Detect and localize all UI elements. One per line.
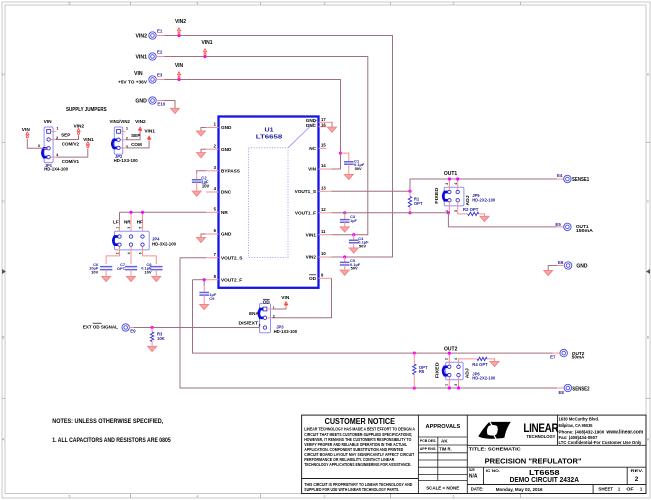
U1 pin 12 VOUT1_F — [319, 212, 332, 214]
svg-text:GND: GND — [576, 264, 588, 270]
JP4 pins — [118, 235, 121, 238]
node C9 junction — [203, 278, 206, 281]
ground at C1 — [344, 174, 353, 179]
terminal E6 GND — [564, 262, 571, 269]
U1 pin 4 DNC — [206, 191, 219, 193]
wire net VIN2 — [165, 36, 393, 258]
svg-text:www.linear.com: www.linear.com — [605, 429, 643, 435]
U1 pin 7 VOUT2_S — [206, 257, 219, 259]
resistor R1 — [409, 191, 411, 196]
terminal E4 SENSE1 — [557, 178, 564, 180]
ground at C2 — [192, 191, 201, 196]
ground at C3 — [340, 227, 349, 232]
svg-text:10V: 10V — [202, 183, 210, 188]
svg-text:E6: E6 — [558, 260, 564, 265]
wire JP3 pin1 to VIN flag — [267, 308, 273, 310]
node VOUT1_F R1 junction — [408, 211, 411, 214]
ground at R4 — [490, 361, 499, 366]
svg-text:11: 11 — [321, 229, 326, 234]
svg-text:4: 4 — [197, 494, 199, 498]
svg-text:4: 4 — [454, 358, 458, 360]
terminal E5 OUT1 150mA — [557, 226, 564, 228]
svg-text:BYPASS: BYPASS — [221, 169, 240, 174]
svg-text:E7: E7 — [550, 355, 556, 360]
wire E2 VIN1 stub — [156, 56, 164, 58]
ground at C7 — [127, 276, 136, 281]
svg-text:VIN1: VIN1 — [135, 55, 147, 61]
wire JP4 pin3 stub — [130, 213, 132, 235]
svg-text:N/A: N/A — [469, 473, 478, 479]
U1 pin 3 BYPASS — [206, 170, 219, 172]
resistor R5 OPT — [413, 352, 416, 355]
svg-text:10K: 10K — [157, 336, 165, 341]
JP2 pin 1 stub — [120, 130, 125, 132]
svg-text:E10: E10 — [157, 101, 165, 106]
wire E1 VIN2 stub — [156, 35, 164, 37]
capacitor C9 — [203, 280, 205, 286]
wire E6 to ground — [557, 265, 565, 267]
svg-text:E8: E8 — [559, 390, 565, 395]
svg-text:SHEET: SHEET — [598, 487, 613, 492]
svg-text:DNC: DNC — [221, 190, 232, 195]
ground at C6 — [102, 276, 111, 281]
JP3 pin 2 — [263, 316, 266, 319]
wire net VIN — [165, 80, 341, 170]
capacitor C1 — [339, 152, 342, 155]
jumper JP5 — [444, 187, 464, 206]
svg-text:NR: NR — [221, 210, 228, 215]
node NR jumper taps — [129, 211, 132, 214]
resistor R3 10K — [151, 326, 154, 329]
svg-text:GND: GND — [221, 232, 232, 237]
svg-text:VIN2: VIN2 — [135, 34, 147, 40]
svg-text:4: 4 — [454, 183, 458, 185]
svg-text:VIN: VIN — [308, 167, 316, 172]
svg-text:U1: U1 — [265, 127, 274, 133]
JP6 pin stubs — [448, 353, 450, 364]
JP1 pin 1 stub — [51, 130, 57, 132]
wire JP1 pin2 to VIN2 flag — [50, 139, 56, 141]
ground at U1 pin 1 — [201, 128, 206, 131]
capacitor C2 — [197, 171, 206, 174]
svg-text:15: 15 — [321, 143, 326, 148]
wire E3 VIN stub — [156, 79, 164, 81]
svg-text:R2 OPT: R2 OPT — [463, 207, 479, 212]
svg-text:1: 1 — [116, 227, 120, 229]
svg-text:3: 3 — [324, 2, 326, 6]
JP5 shunt FIXED position — [443, 192, 449, 200]
JP4 shunt LF position — [113, 237, 119, 245]
U1 pin 17 GND — [319, 121, 332, 123]
JP1 pin 2 — [47, 138, 50, 141]
svg-text:OPT: OPT — [117, 266, 126, 271]
svg-text:TITLE: SCHEMATIC: TITLE: SCHEMATIC — [469, 447, 522, 452]
svg-text:FIXED: FIXED — [434, 362, 439, 378]
svg-text:AK: AK — [441, 439, 448, 444]
power flag VIN1 — [203, 49, 206, 54]
svg-text:Milpitas, CA 95035: Milpitas, CA 95035 — [559, 423, 593, 428]
svg-text:3: 3 — [454, 384, 458, 386]
ground at C5 — [340, 270, 349, 275]
JP2 pin 2 — [117, 138, 120, 141]
svg-text:VIN2: VIN2 — [73, 123, 84, 129]
svg-text:VOUT2_S: VOUT2_S — [221, 256, 242, 261]
svg-text:SENSE1: SENSE1 — [572, 177, 589, 183]
svg-text:EXT OD SIGNAL: EXT OD SIGNAL — [83, 325, 118, 331]
svg-text:SUPPLIED FOR USE WITH LINEAR T: SUPPLIED FOR USE WITH LINEAR TECHNOLOGY … — [304, 487, 399, 492]
node JP6 junctions — [448, 352, 451, 355]
svg-text:VIN: VIN — [44, 119, 53, 125]
capacitor C5 — [343, 255, 346, 258]
svg-text:SIZE: SIZE — [469, 468, 475, 472]
svg-text:ADJ: ADJ — [465, 195, 470, 206]
svg-text:R4 OPT: R4 OPT — [472, 362, 488, 367]
svg-text:OPT: OPT — [414, 201, 423, 206]
wire JP1 pin4 to VIN1 flag — [51, 156, 57, 158]
svg-text:LF: LF — [113, 220, 119, 225]
wire VOUT1_F to E5 — [448, 213, 556, 227]
svg-text:5: 5 — [139, 227, 143, 229]
svg-text:NC: NC — [309, 146, 316, 151]
U1 pin 9 OD — [319, 277, 332, 279]
node VIN flag junction — [177, 78, 180, 81]
svg-text:C9: C9 — [209, 296, 215, 301]
svg-text:50V: 50V — [359, 243, 366, 248]
JP1 shunt on pins 3-4 — [42, 148, 48, 157]
title block outline — [302, 415, 646, 493]
svg-text:VIN2: VIN2 — [135, 119, 146, 125]
power flag VIN at JP3 — [284, 302, 287, 305]
svg-text:GND: GND — [221, 147, 232, 152]
svg-text:3: 3 — [127, 227, 131, 229]
resistor R2 to ground — [458, 202, 468, 214]
svg-text:COM: COM — [131, 142, 142, 147]
capacitor C3 — [343, 211, 346, 214]
svg-text:OD: OD — [263, 300, 271, 305]
ground at U1 pin 6 — [201, 234, 206, 237]
svg-text:VIN2: VIN2 — [175, 19, 186, 25]
JP3 pin 2 stub — [267, 317, 272, 319]
wire net VOUT2_F — [193, 279, 207, 281]
wire net VOUT1_F — [332, 212, 449, 214]
power flag VIN1 at JP1 — [86, 142, 89, 146]
svg-text:E2: E2 — [157, 49, 163, 54]
svg-text:HD-2X2-100: HD-2X2-100 — [472, 197, 496, 202]
zone ticks left/right — [2, 142, 650, 144]
ground at C4 — [349, 248, 358, 253]
terminal E7 OUT2 50mA — [553, 352, 561, 354]
svg-text:HF: HF — [137, 220, 143, 225]
svg-text:E4: E4 — [557, 173, 563, 178]
svg-text:VIN: VIN — [134, 71, 143, 77]
title block dividers — [418, 415, 467, 493]
power flag VIN2 at JP1 — [77, 128, 80, 132]
jumper JP2 — [114, 127, 122, 154]
svg-text:1µF: 1µF — [350, 218, 358, 223]
svg-text:IC NO.: IC NO. — [486, 469, 500, 473]
U1 pin 6 GND — [206, 233, 219, 235]
U1 pin 15 NC — [319, 147, 327, 149]
svg-text:NR: NR — [124, 220, 131, 225]
ground at C8 — [152, 276, 161, 281]
svg-text:4: 4 — [197, 2, 199, 6]
svg-text:OF: OF — [626, 487, 634, 492]
terminal E10 GND — [149, 97, 156, 104]
svg-text:1630 McCarthy Blvd.: 1630 McCarthy Blvd. — [559, 417, 600, 422]
svg-text:LTC Confidential-For Customer: LTC Confidential-For Customer Use Only — [559, 440, 642, 445]
power flag VIN2 — [177, 28, 180, 33]
capacitor C6 — [106, 247, 119, 265]
svg-text:HD-1X3-100: HD-1X3-100 — [274, 329, 298, 334]
svg-text:LINEAR: LINEAR — [523, 421, 558, 435]
U1 pin 8 VOUT2_F — [206, 279, 219, 281]
svg-text:2: 2 — [445, 358, 449, 360]
svg-text:2: 2 — [635, 476, 639, 483]
svg-text:HD-3X2-100: HD-3X2-100 — [152, 241, 177, 246]
svg-text:VOUT2_F: VOUT2_F — [221, 277, 242, 282]
svg-text:3: 3 — [259, 323, 261, 327]
JP5 pin1 stub to VOUT1_F — [448, 202, 450, 213]
svg-text:PCB DES.: PCB DES. — [420, 439, 437, 443]
svg-text:LT6658: LT6658 — [529, 468, 560, 477]
U1 pin 14 VIN — [319, 168, 332, 170]
svg-text:150mA: 150mA — [576, 228, 594, 233]
JP3 pin 1 — [263, 307, 267, 311]
jumper JP3 — [260, 304, 271, 333]
U1 pin 5 NR — [206, 211, 219, 213]
sheet centre arrows — [2, 269, 6, 274]
svg-text:PRECISION "REFULATOR": PRECISION "REFULATOR" — [485, 456, 582, 465]
power flag VIN2 at JP2 — [138, 127, 141, 130]
svg-text:VIN1/VIN2: VIN1/VIN2 — [110, 119, 131, 125]
svg-text:OUT1: OUT1 — [444, 171, 458, 177]
svg-text:13: 13 — [321, 186, 326, 191]
svg-text:1: 1 — [445, 384, 449, 386]
ground at C9 — [200, 305, 209, 310]
svg-text:2: 2 — [453, 494, 455, 498]
wire OUT1 riser — [410, 179, 557, 191]
svg-text:SEP: SEP — [61, 132, 70, 137]
svg-text:APPROVALS: APPROVALS — [426, 424, 461, 430]
svg-text:10V: 10V — [91, 270, 98, 275]
svg-text:Phone: (408)432-1900: Phone: (408)432-1900 — [559, 429, 605, 434]
node VIN1 flag junction — [203, 55, 206, 58]
wire JP2 pin2 to VIN2 flag — [121, 139, 127, 141]
svg-text:FIXED: FIXED — [434, 188, 439, 204]
svg-text:GND: GND — [221, 125, 232, 130]
svg-text:COM/V1: COM/V1 — [62, 159, 80, 164]
svg-text:HD-2X2-100: HD-2X2-100 — [472, 376, 496, 381]
svg-text:17: 17 — [321, 117, 326, 122]
svg-text:5: 5 — [69, 2, 71, 6]
terminal E9 EXT OD SIGNAL — [122, 324, 129, 331]
ground at U1 pin 2 — [201, 149, 206, 152]
svg-text:VIN1: VIN1 — [144, 128, 155, 134]
wire E10 to ground — [156, 100, 163, 102]
svg-text:VIN1: VIN1 — [83, 137, 94, 143]
svg-text:COM/V2: COM/V2 — [62, 141, 80, 146]
node JP5 pin1 junction — [447, 211, 450, 214]
resistor R4 to ground — [459, 359, 477, 365]
svg-text:DEMO CIRCUIT 2432A: DEMO CIRCUIT 2432A — [510, 477, 579, 484]
svg-text:14: 14 — [321, 163, 326, 168]
power flag VIN1 at JP2 — [147, 136, 150, 139]
svg-text:E5: E5 — [555, 222, 561, 227]
svg-text:10V: 10V — [144, 270, 151, 275]
wire JP4 pin5 stub — [142, 213, 144, 235]
jumper JP4 — [115, 231, 150, 250]
svg-text:VIN1: VIN1 — [306, 232, 317, 237]
wire EXT OD wire — [134, 327, 264, 329]
ground at R2 — [480, 216, 489, 221]
JP3 pin 3 — [263, 326, 266, 329]
wire net NR — [120, 211, 207, 213]
JP1 pin 4 — [47, 155, 50, 158]
svg-text:Monday, May 02, 2016: Monday, May 02, 2016 — [496, 487, 543, 493]
svg-text:5: 5 — [69, 494, 71, 498]
wire net VOUT1_S — [332, 190, 411, 192]
svg-text:TECHNOLOGY APPLICATIONS ENGINE: TECHNOLOGY APPLICATIONS ENGINEERING FOR … — [304, 462, 411, 467]
power flag VIN at JP1 — [26, 132, 29, 136]
JP5 pin stubs top — [448, 179, 450, 190]
svg-text:2: 2 — [453, 2, 455, 6]
svg-text:DATE:: DATE: — [471, 487, 484, 492]
U1 pad diagonal to pin 17 — [288, 120, 317, 148]
svg-text:ENA: ENA — [249, 311, 259, 316]
svg-text:+5V TO +36V: +5V TO +36V — [118, 80, 148, 85]
ground at R3 — [148, 346, 157, 351]
svg-text:50mA: 50mA — [572, 355, 585, 360]
terminal E2 — [149, 53, 156, 60]
svg-text:VIN: VIN — [175, 63, 184, 69]
JP3 shunt ENA position — [259, 309, 265, 318]
U1 pin 2 GND — [206, 148, 219, 150]
terminal E3 — [149, 76, 156, 83]
capacitor C4 — [352, 233, 355, 236]
U1 pin 11 VIN1 — [319, 234, 332, 236]
svg-text:E9: E9 — [130, 328, 136, 333]
JP5 pins — [448, 190, 451, 193]
JP2 pin 1 — [117, 130, 121, 134]
wire JP2 pin3 to VIN1 flag — [121, 147, 127, 149]
svg-text:ADJ: ADJ — [464, 368, 469, 379]
capacitor C7 — [130, 247, 132, 265]
svg-text:1. ALL CAPACITORS AND RESISTO: 1. ALL CAPACITORS AND RESISTORS ARE 0805 — [52, 437, 171, 444]
svg-text:E3: E3 — [157, 72, 163, 77]
terminal E8 SENSE2 — [557, 387, 564, 389]
node VIN2 flag junction — [177, 34, 180, 37]
ground at E6 — [544, 270, 553, 275]
svg-text:GND: GND — [135, 99, 147, 105]
wire net OD from pin 9 — [273, 278, 332, 318]
node JP5 top junctions — [448, 177, 451, 180]
svg-text:APP ENG.: APP ENG. — [420, 447, 437, 451]
wire net VIN1 — [165, 57, 368, 235]
svg-text:HD-1X4-100: HD-1X4-100 — [44, 167, 69, 172]
svg-text:SENSE2: SENSE2 — [572, 387, 589, 393]
svg-text:VIN2: VIN2 — [306, 255, 317, 260]
svg-text:3: 3 — [324, 494, 326, 498]
IC U1 LT6658 body — [219, 117, 319, 288]
svg-text:HD-1X3-100: HD-1X3-100 — [114, 158, 139, 163]
terminal E1 — [149, 32, 156, 39]
U1 exposed pad dashed outline — [249, 148, 289, 258]
svg-text:NOTES: UNLESS OTHERWISE SPECIF: NOTES: UNLESS OTHERWISE SPECIFIED, — [52, 418, 163, 425]
ground at U1 pin 17 — [331, 122, 334, 127]
JP6 shunt FIXED position — [443, 367, 449, 375]
JP2 shunt on pins 2-3 — [112, 140, 118, 148]
svg-text:REV.: REV. — [631, 469, 644, 473]
svg-text:TIM R.: TIM R. — [439, 447, 451, 452]
svg-text:50V: 50V — [355, 166, 362, 171]
svg-text:CUSTOMER NOTICE: CUSTOMER NOTICE — [325, 417, 396, 426]
svg-text:12: 12 — [321, 207, 326, 212]
wire net VOUT2_S — [180, 257, 206, 259]
jumper JP1 — [44, 127, 53, 163]
svg-text:LT6658: LT6658 — [256, 135, 283, 141]
U1 pin 1 GND — [206, 127, 219, 129]
node VOUT1_S R1 junction — [408, 190, 411, 193]
Linear Technology logo — [478, 421, 511, 439]
svg-text:16: 16 — [321, 122, 326, 127]
capacitor C8 — [143, 247, 157, 265]
svg-text:DNC: DNC — [306, 123, 317, 128]
wire JP1 pin3 to VIN flag — [44, 147, 47, 149]
JP1 pin 3 — [47, 147, 50, 150]
svg-text:SCALE = NONE: SCALE = NONE — [426, 486, 459, 491]
power flag VIN — [177, 72, 180, 77]
svg-text:2: 2 — [445, 183, 449, 185]
svg-text:R5: R5 — [419, 369, 425, 374]
ground at E10 — [171, 108, 180, 113]
svg-text:VOUT1_F: VOUT1_F — [295, 211, 316, 216]
svg-text:OUT2: OUT2 — [444, 346, 458, 352]
svg-text:DIS/EXT: DIS/EXT — [239, 320, 259, 325]
zone ticks top/bottom — [130, 2, 132, 498]
svg-text:OD: OD — [309, 276, 317, 281]
svg-text:E1: E1 — [157, 28, 163, 33]
svg-text:10: 10 — [321, 251, 326, 256]
U1 pin 10 VIN2 — [319, 256, 332, 258]
JP1 pin 1 — [47, 130, 51, 134]
svg-text:VOUT1_S: VOUT1_S — [295, 189, 316, 194]
svg-text:SUPPLY JUMPERS: SUPPLY JUMPERS — [66, 107, 107, 113]
jumper JP6 — [446, 362, 464, 380]
U1 pin 16 DNC — [319, 126, 327, 128]
U1 pin 13 VOUT1_S — [319, 190, 332, 192]
svg-text:VIN: VIN — [22, 127, 31, 133]
svg-text:VIN1: VIN1 — [201, 40, 212, 46]
svg-text:50V: 50V — [351, 266, 358, 271]
JP6 pins — [448, 365, 451, 368]
svg-text:SEP: SEP — [131, 133, 140, 138]
svg-text:VIN: VIN — [281, 295, 290, 301]
svg-text:TECHNOLOGY: TECHNOLOGY — [526, 434, 556, 439]
JP2 pin 3 — [117, 146, 120, 149]
